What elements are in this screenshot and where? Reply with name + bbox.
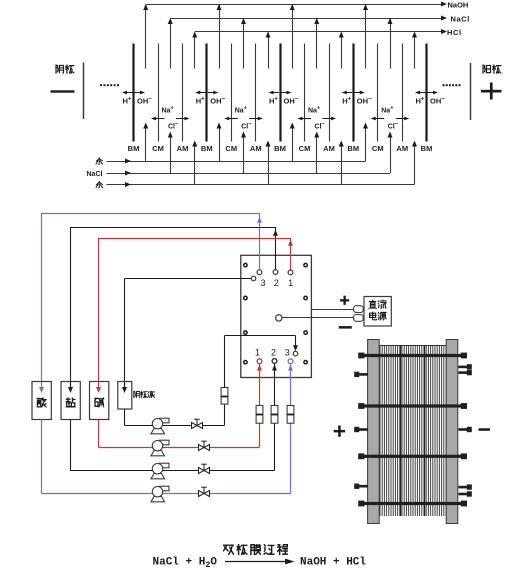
water feed line 2 [107, 184, 415, 186]
bolt hole 4 [304, 296, 307, 299]
base tank 碱 [90, 382, 109, 420]
centre electrode terminal [276, 315, 282, 321]
bipolar membrane BM4 [352, 44, 354, 142]
OH- arrow at BM3 [281, 92, 291, 94]
salt pump line [71, 470, 275, 472]
salt outlet riser 3 [316, 19, 318, 69]
pump P1 rinse [151, 418, 169, 434]
acid feeder 1 [194, 146, 196, 185]
DC power supply box 直流电源 [364, 297, 391, 327]
arrow up at port2 riser [273, 230, 278, 236]
acid return line (blue) port3 to acid tank [42, 214, 260, 387]
acid feeder 3 [341, 146, 343, 185]
cation membrane CM4 [377, 44, 379, 142]
bipolar membrane BM2 [205, 44, 207, 142]
electrode rinse feed line into cell [225, 335, 296, 337]
plus label at supply [340, 296, 349, 305]
NaCl feed line [107, 173, 391, 175]
Na+ arrow through CM2 [225, 118, 238, 120]
anion membrane AM1 [182, 44, 184, 142]
positive wire to DC supply [311, 309, 353, 311]
acid pump line (blue) [42, 493, 291, 495]
Na+ arrow through CM3 [299, 118, 312, 120]
negative wire to DC supply [282, 317, 354, 319]
salt feeder 1 [170, 137, 172, 173]
bipolar membrane BM3 [279, 44, 281, 142]
svg-text:BM: BM [128, 144, 140, 153]
stack minus terminal label [479, 428, 491, 431]
svg-text:CM: CM [152, 144, 164, 153]
salt tank outlet [70, 420, 72, 471]
cathode electrode plate [83, 63, 85, 120]
H+ arrow at BM4 [343, 92, 353, 94]
bolt hole 1 [244, 263, 247, 266]
rinse tank outlet [124, 409, 126, 426]
svg-text:AM: AM [250, 144, 262, 153]
bolt hole 8 [304, 361, 307, 364]
H+ arrow at BM2 [196, 92, 206, 94]
H+ arrow at BM3 [270, 92, 280, 94]
anion membrane AM4 [402, 44, 404, 142]
anode electrode plate [470, 63, 472, 120]
svg-text:BM: BM [201, 144, 213, 153]
acid outlet riser 1 [194, 33, 196, 69]
bolt hole 7 [244, 361, 247, 364]
base outlet riser 1 [145, 5, 147, 69]
arrow up at port1 riser [288, 240, 293, 246]
svg-text:3: 3 [285, 348, 290, 358]
water feed label (base) [96, 157, 103, 164]
top port 1 [288, 270, 293, 275]
rinse riser to cell [224, 336, 226, 426]
acid outlet riser 4 [414, 33, 416, 69]
Cl- arrow through AM4 [396, 118, 409, 120]
cation membrane CM1 [158, 44, 160, 142]
valve V2 base [199, 441, 210, 450]
base feeder 2 [219, 128, 221, 161]
bottom port 3 (blue) [288, 359, 293, 364]
pump P2 base [151, 440, 169, 456]
anion membrane AM2 [255, 44, 257, 142]
base outlet riser 4 [365, 5, 367, 69]
base feeder 4 [365, 128, 367, 161]
H+ arrow at BM5 [416, 92, 426, 94]
valve V1 rinse [192, 419, 203, 428]
svg-text:AM: AM [396, 144, 408, 153]
tie rod 1 [358, 353, 467, 359]
NaCl header line [170, 18, 441, 20]
base outlet riser 3 [292, 5, 294, 69]
HCl header line [195, 31, 442, 33]
bipolar membrane BM1 [132, 44, 134, 142]
valve V3 salt [199, 464, 210, 473]
stack plus terminal label [334, 425, 345, 436]
top port 3 [257, 270, 262, 275]
salt feeder 2 [243, 137, 245, 173]
rinse pump suction line [125, 425, 225, 427]
OH- arrow at BM2 [208, 92, 218, 94]
tie rod 2 [358, 403, 467, 409]
pump P4 acid [151, 486, 169, 502]
Na+ arrow through CM1 [152, 118, 165, 120]
left stud bolt 2 [354, 427, 368, 432]
base feeder 1 [145, 128, 147, 161]
salt sample tube [271, 406, 278, 424]
anode plus terminal [481, 83, 502, 100]
acid tank outlet [41, 420, 43, 494]
NaOH header line [146, 4, 442, 6]
electrode rinse return line to rinse tank [125, 278, 252, 280]
base feeder 3 [292, 128, 294, 161]
bolt hole 3 [244, 296, 247, 299]
bottom port 1 (red) [257, 359, 262, 364]
svg-text:2: 2 [274, 278, 279, 288]
svg-text:CM: CM [372, 144, 384, 153]
stack membrane pack hatch [380, 345, 446, 516]
svg-text:CM: CM [225, 144, 237, 153]
svg-text:NaOH + HCl: NaOH + HCl [300, 557, 366, 569]
svg-text:BM: BM [274, 144, 286, 153]
base return line (red) port1 to base tank [99, 239, 291, 387]
svg-text:1: 1 [255, 348, 260, 358]
minus label at supply [339, 326, 352, 329]
stack right end plate [446, 340, 458, 524]
right stud bolt 4 [459, 484, 472, 489]
arrow up at port3 riser [257, 217, 262, 223]
svg-text:AM: AM [177, 144, 189, 153]
rinse tank label 阴极液 [134, 391, 155, 398]
reaction arrow [225, 561, 286, 563]
process label 双极膜过程 [223, 544, 288, 555]
svg-text:2: 2 [271, 348, 276, 358]
left stud bolt 1 [354, 372, 368, 377]
tie rod 4 [358, 501, 467, 507]
electrode rinse tank [118, 382, 132, 410]
supply connector stub bottom [354, 315, 364, 322]
Cl- arrow through AM3 [323, 118, 336, 120]
inlet arrow into electrode rinse tank [124, 382, 126, 388]
rinse inlet port [293, 351, 298, 356]
acid feeder 4 [414, 146, 416, 185]
base sample tube [256, 406, 263, 424]
Na+ arrow through CM4 [372, 118, 385, 120]
Cl- arrow through AM1 [176, 118, 189, 120]
right stud bolt 1 [459, 364, 472, 369]
bottom port 2 (black) [272, 359, 277, 364]
acid riser to port3 (blue) [290, 364, 292, 494]
svg-text:BM: BM [347, 144, 359, 153]
membrane stack cell body (front view) [241, 255, 312, 377]
bolt hole 5 [244, 331, 247, 334]
supply connector stub top [354, 306, 364, 313]
salt outlet riser 2 [243, 19, 245, 69]
salt tank 盐 [61, 382, 80, 420]
stack pack dividers [400, 345, 402, 516]
svg-text:1: 1 [288, 278, 293, 288]
Cl- arrow through AM2 [249, 118, 262, 120]
anode label 阳极 [483, 65, 501, 74]
water feed line 1 [107, 161, 366, 163]
svg-text:BM: BM [421, 144, 433, 153]
bolt hole 6 [304, 331, 307, 334]
dots right [443, 84, 461, 86]
OH- arrow at BM4 [354, 92, 364, 94]
H+ arrow at BM1 [123, 92, 133, 94]
bolt hole 2 [304, 263, 307, 266]
inlet arrow into base tank 碱 [98, 382, 100, 388]
acid tank 酸 [32, 382, 51, 420]
cathode minus terminal [51, 90, 75, 92]
left stud bolt 3 [354, 484, 368, 489]
top port 2 [273, 270, 278, 275]
salt outlet riser 4 [390, 19, 392, 69]
bipolar membrane BM5 [425, 44, 427, 142]
acid sample tube [287, 406, 294, 424]
OH- arrow at BM1 [135, 92, 145, 94]
right stud bolt 5 [459, 491, 472, 496]
base riser to port1 (red) [259, 364, 261, 448]
anion membrane AM3 [329, 44, 331, 142]
base pump line (red) [99, 447, 260, 449]
svg-text:NaCl: NaCl [87, 171, 103, 178]
valve V4 acid [199, 487, 210, 496]
salt feeder 4 [390, 137, 392, 173]
cation membrane CM2 [231, 44, 233, 142]
pump P3 salt [151, 463, 169, 479]
svg-text:CM: CM [299, 144, 311, 153]
left rinse port [251, 276, 256, 281]
cathode label 阴极 [56, 65, 74, 74]
right stud bolt 3 [459, 427, 472, 432]
svg-text:NaOH: NaOH [448, 0, 469, 9]
salt feeder 3 [316, 137, 318, 173]
inlet arrow into acid tank 酸 [41, 382, 43, 388]
base tank outlet [98, 420, 100, 448]
rinse sample tube [221, 388, 228, 405]
cation membrane CM3 [304, 44, 306, 142]
salt return line (black) port2 to salt tank [71, 228, 276, 387]
base outlet riser 2 [219, 5, 221, 69]
OH- arrow at BM5 [428, 92, 438, 94]
hatch top edge [379, 345, 446, 347]
svg-text:AM: AM [323, 144, 335, 153]
stack left end plate [368, 340, 380, 524]
acid outlet riser 2 [268, 33, 270, 69]
salt outlet riser 1 [170, 19, 172, 69]
svg-text:NaCl: NaCl [451, 14, 471, 23]
salt riser to port2 [274, 364, 276, 471]
acid feeder 2 [268, 146, 270, 185]
right stud bolt 2 [459, 370, 472, 375]
tie rod 3 [358, 453, 467, 459]
svg-text:3: 3 [260, 278, 265, 288]
dots left [100, 84, 119, 86]
inlet arrow into salt tank 盐 [70, 382, 72, 388]
acid outlet riser 3 [341, 33, 343, 69]
svg-text:HCl: HCl [447, 28, 462, 37]
water feed label (acid) [96, 181, 103, 188]
